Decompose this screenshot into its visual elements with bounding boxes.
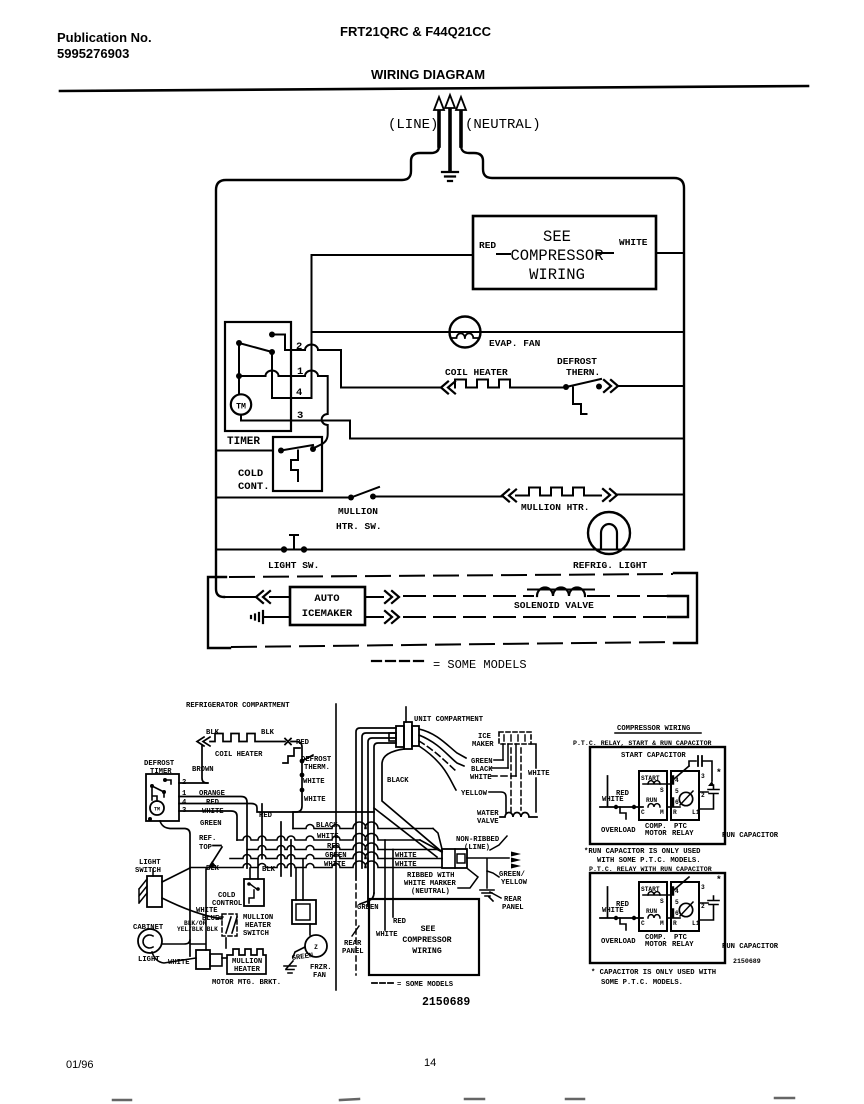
svg-text:REF.: REF. [199, 835, 216, 843]
wire left edge to cold control [216, 450, 273, 452]
svg-text:L1: L1 [692, 920, 700, 927]
svg-text:6: 6 [675, 799, 679, 806]
wire yellow [419, 746, 506, 813]
motor bracket [196, 950, 210, 969]
svg-text:* CAPACITOR IS ONLY USED WITH: * CAPACITOR IS ONLY USED WITH [591, 969, 716, 977]
svg-text:GREEN: GREEN [325, 852, 347, 860]
svg-text:FRZR.: FRZR. [310, 964, 332, 972]
svg-text:TIMER: TIMER [227, 436, 260, 448]
svg-text:WIRING: WIRING [529, 266, 585, 284]
entry wire b2 [600, 887, 643, 918]
svg-text:START CAPACITOR: START CAPACITOR [621, 752, 686, 760]
svg-text:WHITE: WHITE [304, 796, 326, 804]
svg-text:RELAY: RELAY [672, 830, 694, 838]
wire vert 281 [280, 822, 282, 876]
run capacitor b2 [699, 896, 719, 920]
wire contact3 row [241, 415, 684, 439]
ptc pin4 wire b2 [674, 877, 689, 890]
wire light switch row [216, 549, 684, 551]
wire red down to therm [291, 742, 302, 760]
wire mullion to right edge [617, 494, 684, 496]
wire dotD down [271, 352, 273, 398]
svg-text:SEE: SEE [543, 228, 571, 246]
svg-text:OVERLOAD: OVERLOAD [601, 827, 636, 835]
svg-text:2150689: 2150689 [422, 996, 470, 1009]
ptc relay box b2 [671, 882, 699, 931]
svg-text:RED: RED [393, 918, 407, 926]
svg-text:14: 14 [424, 1057, 436, 1069]
defrost therm dot right [596, 384, 602, 390]
svg-text:M: M [660, 809, 664, 816]
connector wire out [467, 858, 509, 888]
svg-text:ORANGE: ORANGE [199, 790, 226, 798]
connector pins down dashed [510, 748, 512, 812]
svg-text:YEL/BLK BLK: YEL/BLK BLK [177, 926, 218, 933]
motor start winding b1 [643, 783, 671, 785]
svg-text:WHITE: WHITE [470, 774, 492, 782]
mullion heater box [227, 949, 266, 974]
cold control dot left [278, 448, 284, 454]
frzr fan motor box [292, 900, 316, 924]
svg-text:MOTOR MTG. BRKT.: MOTOR MTG. BRKT. [212, 979, 281, 987]
svg-text:RUN CAPACITOR: RUN CAPACITOR [722, 943, 779, 951]
wire vertical V1 [311, 255, 313, 398]
dashed wire icemaker return [404, 616, 668, 618]
svg-text:VALVE: VALVE [477, 818, 499, 826]
main wire through b1 [667, 806, 680, 808]
wire icemaker out top [365, 596, 383, 598]
wire lightswitch up [162, 868, 190, 882]
svg-text:BLACK: BLACK [316, 822, 338, 830]
connector white right [531, 744, 536, 812]
svg-text:MULLION: MULLION [232, 958, 262, 966]
cold control bottom [244, 879, 264, 906]
mullion heater arrows left [502, 490, 516, 502]
icemaker ground symbol [251, 611, 263, 623]
svg-text:S: S [660, 787, 664, 794]
svg-text:WHITE: WHITE [196, 907, 218, 915]
start capacitor circuit [689, 761, 712, 781]
see compressor box2 [369, 899, 479, 975]
coil heater arrows left [441, 382, 455, 394]
svg-text:RED: RED [259, 812, 273, 820]
wire evap fan row [312, 331, 685, 333]
svg-text:RED: RED [327, 843, 341, 851]
ref-top arrow [210, 846, 222, 867]
defrost therm bottom arm [302, 755, 313, 761]
svg-text:*: * [716, 767, 722, 778]
bracket some-models left [208, 577, 230, 648]
svg-text:BROWN: BROWN [192, 766, 214, 774]
svg-text:BLK: BLK [206, 865, 220, 873]
svg-text:5: 5 [675, 899, 679, 906]
svg-text:FAN: FAN [313, 972, 326, 980]
cold control arm [281, 445, 313, 451]
svg-text:WITH SOME P.T.C. MODELS.: WITH SOME P.T.C. MODELS. [597, 857, 701, 865]
svg-text:*RUN CAPACITOR IS ONLY USED: *RUN CAPACITOR IS ONLY USED [584, 848, 701, 856]
icemaker harness plug [396, 726, 404, 747]
chassis ground rear panel [480, 890, 494, 901]
svg-text:LIGHT: LIGHT [138, 956, 160, 964]
timer contact dot D [269, 349, 275, 355]
header rule [60, 86, 808, 91]
splice X mark [285, 739, 291, 745]
wire bus vert 368 [368, 738, 396, 905]
ground symbol [442, 172, 458, 181]
wire contact2 row to coil heater [285, 345, 441, 388]
svg-text:TM: TM [236, 403, 246, 412]
svg-text:5995276903: 5995276903 [57, 46, 129, 61]
defrost timer bottom dot [148, 817, 152, 821]
svg-text:ICE: ICE [478, 733, 492, 741]
svg-text:REAR: REAR [504, 896, 522, 904]
svg-text:COLD: COLD [218, 892, 236, 900]
svg-text:NON-RIBBED: NON-RIBBED [456, 836, 500, 844]
svg-text:2: 2 [701, 903, 705, 910]
svg-text:OVERLOAD: OVERLOAD [601, 938, 636, 946]
wire bus row RED [247, 843, 438, 850]
main wire through b2 [667, 917, 680, 919]
coil heater resistor [455, 380, 521, 388]
ribbed pointer [458, 869, 478, 888]
icemaker arrows right top [385, 591, 399, 603]
connector pins solid [503, 744, 516, 776]
coil heater bottom arrows [197, 737, 210, 746]
entry wire b1 [600, 776, 643, 807]
wire green feeder [160, 821, 190, 956]
wire cold control stubs [250, 859, 258, 879]
wire mullion mid [373, 496, 502, 498]
wire vert 291 [290, 840, 292, 876]
wire bus row BLACK [293, 822, 433, 829]
wire bus row WHITE [237, 834, 420, 841]
wire neutral-prong to outer box right [461, 146, 684, 549]
comp motor box b2 [639, 882, 667, 931]
timer contact dot A [269, 332, 275, 338]
svg-text:WHITE: WHITE [317, 833, 339, 841]
svg-text:PANEL: PANEL [502, 904, 524, 912]
wire mullion switch row left [216, 497, 348, 499]
cold control box [273, 437, 322, 491]
solenoid valve coil [537, 588, 585, 597]
svg-text:RED: RED [479, 240, 496, 251]
comp motor box b1 [639, 771, 667, 820]
svg-text:MOTOR: MOTOR [645, 941, 667, 949]
svg-text:3: 3 [701, 884, 705, 891]
svg-text:(NEUTRAL): (NEUTRAL) [465, 117, 541, 133]
svg-text:COMPRESSOR WIRING: COMPRESSOR WIRING [617, 725, 690, 733]
evap fan motor circle [450, 317, 481, 348]
wire white to motor [152, 952, 196, 963]
timer contact dot B [236, 340, 242, 346]
wire brown [202, 746, 207, 783]
non-ribbed pointer [490, 836, 507, 850]
water valve coil [500, 813, 537, 818]
svg-text:LIGHT SW.: LIGHT SW. [268, 560, 319, 571]
defrost timer dots and arm [163, 778, 167, 782]
svg-text:REFRIG. LIGHT: REFRIG. LIGHT [573, 560, 647, 571]
wire bus row GREEN [230, 852, 442, 858]
frzr fan circle [305, 935, 327, 957]
svg-text:GREEN: GREEN [291, 952, 313, 963]
fan ground [284, 961, 296, 973]
ribbed connector [442, 849, 467, 868]
svg-text:SWITCH: SWITCH [243, 930, 269, 938]
svg-text:FRT21QRC & F44Q21CC: FRT21QRC & F44Q21CC [340, 24, 492, 39]
compartment divider [335, 704, 337, 990]
see-compressor-wiring box [473, 216, 656, 289]
svg-text:TM: TM [154, 807, 160, 813]
mullion heater resistor [529, 488, 595, 496]
svg-text:C: C [641, 809, 645, 816]
ptc circle b1 [679, 792, 692, 805]
svg-text:HEATER: HEATER [234, 966, 261, 974]
wire green into box2 [367, 859, 369, 906]
wire dt contact2 row [179, 782, 208, 784]
svg-text:CONT.: CONT. [238, 481, 270, 493]
overload jog b2 [620, 918, 626, 930]
svg-text:Z: Z [314, 944, 318, 951]
svg-text:BLACK: BLACK [471, 766, 493, 774]
mullion switch dot left [348, 495, 354, 501]
timer box [225, 322, 291, 431]
auto icemaker box [290, 587, 365, 625]
ptc relay box b1 [671, 771, 699, 820]
svg-text:DEFROST: DEFROST [557, 356, 597, 367]
wire down to motor bracket [191, 869, 206, 950]
mullion heater switch dashed [222, 914, 237, 936]
svg-text:WHITE MARKER: WHITE MARKER [404, 880, 456, 888]
wire fan down [293, 924, 310, 957]
svg-text:RUN CAPACITOR: RUN CAPACITOR [722, 832, 779, 840]
wire red feeder [179, 804, 374, 813]
svg-text:MULLION: MULLION [243, 914, 273, 922]
svg-text:YELLOW: YELLOW [461, 790, 488, 798]
defrost therm bottom step [283, 748, 300, 763]
timer motor TM circle [231, 394, 251, 414]
svg-text:MAKER: MAKER [472, 741, 494, 749]
ptc pins b2 [671, 888, 674, 916]
compressor box b1 [590, 747, 725, 844]
svg-text:COIL HEATER: COIL HEATER [445, 367, 508, 378]
wire defrost to right edge [618, 385, 684, 387]
svg-text:DEFROST: DEFROST [301, 756, 332, 764]
wire therm white down [293, 761, 302, 829]
svg-text:2150689: 2150689 [733, 958, 761, 965]
wire bus vert 356 [356, 728, 396, 880]
svg-text:GREEN: GREEN [357, 904, 379, 912]
svg-text:WHITE: WHITE [168, 959, 190, 967]
svg-text:SEE: SEE [421, 925, 436, 934]
svg-text:HEATER: HEATER [245, 922, 272, 930]
wire black vert [382, 749, 442, 852]
svg-text:5: 5 [675, 788, 679, 795]
overload jog b1 [620, 807, 626, 819]
defrost therm dot mid [300, 773, 305, 778]
svg-text:L1: L1 [692, 809, 700, 816]
light switch bottom [147, 876, 162, 907]
svg-text:COLD: COLD [238, 468, 263, 480]
defrost therm dot left [563, 384, 569, 390]
svg-text:M: M [660, 920, 664, 927]
svg-text:WATER: WATER [477, 810, 499, 818]
wire dash inside box right [597, 252, 613, 254]
wire bus row WHITE2 [190, 861, 442, 867]
svg-text:WHITE: WHITE [303, 778, 325, 786]
defrost timer box [146, 774, 179, 821]
connector arrows [511, 852, 521, 869]
dashed some-models top [230, 574, 672, 577]
rear panel pointer right [490, 892, 501, 898]
wire cabinet light [162, 940, 190, 944]
mullion switch dot right [370, 494, 376, 500]
svg-text:WHITE: WHITE [202, 808, 224, 816]
svg-text:*: * [716, 874, 722, 885]
defrost therm step symbol [573, 388, 587, 415]
compressor box b2 [590, 873, 725, 963]
defrost timer TM motor [150, 801, 164, 815]
plug prong NEUTRAL [459, 112, 463, 146]
wire contact4 row [272, 397, 312, 399]
icemaker arrows left [256, 591, 270, 603]
svg-text:ICEMAKER: ICEMAKER [302, 608, 353, 620]
svg-text:C: C [641, 920, 645, 927]
wire mhs down [225, 938, 227, 948]
wire mullion resistor right [595, 495, 601, 497]
svg-text:GREEN/: GREEN/ [499, 871, 525, 879]
svg-text:RELAY: RELAY [672, 941, 694, 949]
svg-text:R: R [673, 920, 677, 927]
bracket solenoid right [668, 596, 688, 617]
svg-text:WHITE: WHITE [528, 770, 550, 778]
svg-text:RED: RED [616, 790, 630, 798]
mullion heater arrows right [603, 489, 617, 501]
coil heater bottom resistor [210, 734, 285, 742]
cabinet light [138, 929, 162, 953]
svg-text:GREEN: GREEN [471, 758, 493, 766]
plug stub up [405, 707, 407, 722]
svg-text:THERN.: THERN. [566, 367, 600, 378]
wire icemaker row left [224, 596, 256, 598]
light switch plunger [290, 535, 298, 549]
run capacitor b1 [699, 785, 719, 809]
cold control step symbol [291, 451, 298, 482]
wire to mullion resistor [516, 495, 529, 497]
wire to icemaker box [270, 596, 290, 598]
svg-text:GREEN: GREEN [200, 820, 222, 828]
svg-text:TIMER: TIMER [150, 768, 172, 776]
svg-text:LIGHT: LIGHT [139, 859, 161, 867]
wire green label bend [360, 893, 374, 904]
dashed wire solenoid right [588, 595, 668, 597]
wire red to compressor box [312, 254, 474, 256]
scan marks bottom [113, 1098, 794, 1100]
wire fan feeders [296, 859, 303, 900]
svg-text:RED: RED [206, 799, 220, 807]
svg-text:BLK: BLK [262, 866, 276, 874]
svg-text:WHITE: WHITE [395, 852, 417, 860]
svg-text:Publication No.: Publication No. [57, 30, 152, 45]
rear panel pointer [352, 926, 359, 936]
svg-text:RED: RED [296, 739, 310, 747]
wire red vert to bus [261, 804, 263, 859]
wire lightswitch to mullion sw [162, 898, 222, 919]
harness green [419, 729, 503, 760]
svg-text:THERM.: THERM. [304, 764, 330, 772]
svg-text:SWITCH: SWITCH [135, 867, 161, 875]
svg-text:(LINE): (LINE) [464, 844, 490, 852]
wire orange feeder [179, 797, 247, 869]
motor start winding b2 [643, 894, 671, 896]
svg-text:3: 3 [701, 773, 705, 780]
svg-text:6: 6 [675, 910, 679, 917]
timer switch arm [239, 343, 272, 352]
svg-text:UNIT COMPARTMENT: UNIT COMPARTMENT [414, 716, 484, 724]
svg-text:MULLION: MULLION [338, 506, 378, 517]
svg-text:HTR. SW.: HTR. SW. [336, 521, 382, 532]
svg-text:(LINE): (LINE) [388, 117, 438, 133]
svg-text:SOME P.T.C. MODELS.: SOME P.T.C. MODELS. [601, 979, 683, 987]
wire dotC to TM motor [238, 376, 240, 395]
defrost therm arrows right [604, 380, 618, 392]
svg-text:(NEUTRAL): (NEUTRAL) [411, 888, 450, 896]
wire icemaker out bottom [365, 616, 383, 618]
svg-text:COMPRESSOR: COMPRESSOR [402, 936, 451, 945]
defrost therm bottom dot top [300, 759, 305, 764]
wire white feeder [179, 811, 237, 840]
motor run winding b2 [648, 915, 660, 918]
mullion switch arm [351, 487, 379, 498]
svg-text:AUTO: AUTO [314, 593, 339, 605]
svg-text:01/96: 01/96 [66, 1059, 94, 1071]
svg-text:BLACK: BLACK [387, 777, 409, 785]
ptc circle b2 [679, 903, 692, 916]
wire bus vert 362 [362, 733, 396, 868]
svg-text:2: 2 [296, 341, 302, 353]
svg-text:RIBBED WITH: RIBBED WITH [407, 872, 454, 880]
svg-text:RED: RED [616, 901, 630, 909]
svg-text:WHITE: WHITE [376, 931, 398, 939]
svg-text:= SOME MODELS: = SOME MODELS [433, 658, 527, 672]
wire dotB down to dotC [238, 343, 240, 376]
svg-text:= SOME MODELS: = SOME MODELS [397, 981, 454, 989]
svg-text:2: 2 [701, 792, 705, 799]
svg-text:COIL HEATER: COIL HEATER [215, 751, 263, 759]
harness black [419, 735, 508, 768]
svg-text:WHITE: WHITE [619, 237, 648, 248]
svg-text:REAR: REAR [344, 940, 362, 948]
plug prong ground center [448, 110, 452, 170]
svg-text:WIRING: WIRING [412, 947, 442, 956]
plug prong LINE [437, 112, 441, 146]
defrost therm dot low [300, 788, 305, 793]
svg-text:WIRING DIAGRAM: WIRING DIAGRAM [371, 67, 485, 82]
dashed some-models bottom [232, 642, 672, 647]
svg-text:COMPRESSOR: COMPRESSOR [510, 247, 603, 265]
legend dashes [372, 660, 426, 662]
cold control dot right [310, 446, 316, 452]
icemaker arrows right bottom [385, 611, 399, 623]
motor run winding b1 [648, 804, 660, 807]
wire white to right edge [656, 252, 684, 254]
svg-text:S: S [660, 898, 664, 905]
svg-text:REFRIGERATOR COMPARTMENT: REFRIGERATOR COMPARTMENT [186, 702, 290, 710]
svg-text:DEFROST: DEFROST [144, 760, 175, 768]
harness white dashed [419, 741, 516, 776]
svg-text:BLK: BLK [206, 729, 220, 737]
svg-text:YELLOW: YELLOW [501, 879, 528, 887]
ptc pin4 wire b1 [674, 766, 689, 779]
